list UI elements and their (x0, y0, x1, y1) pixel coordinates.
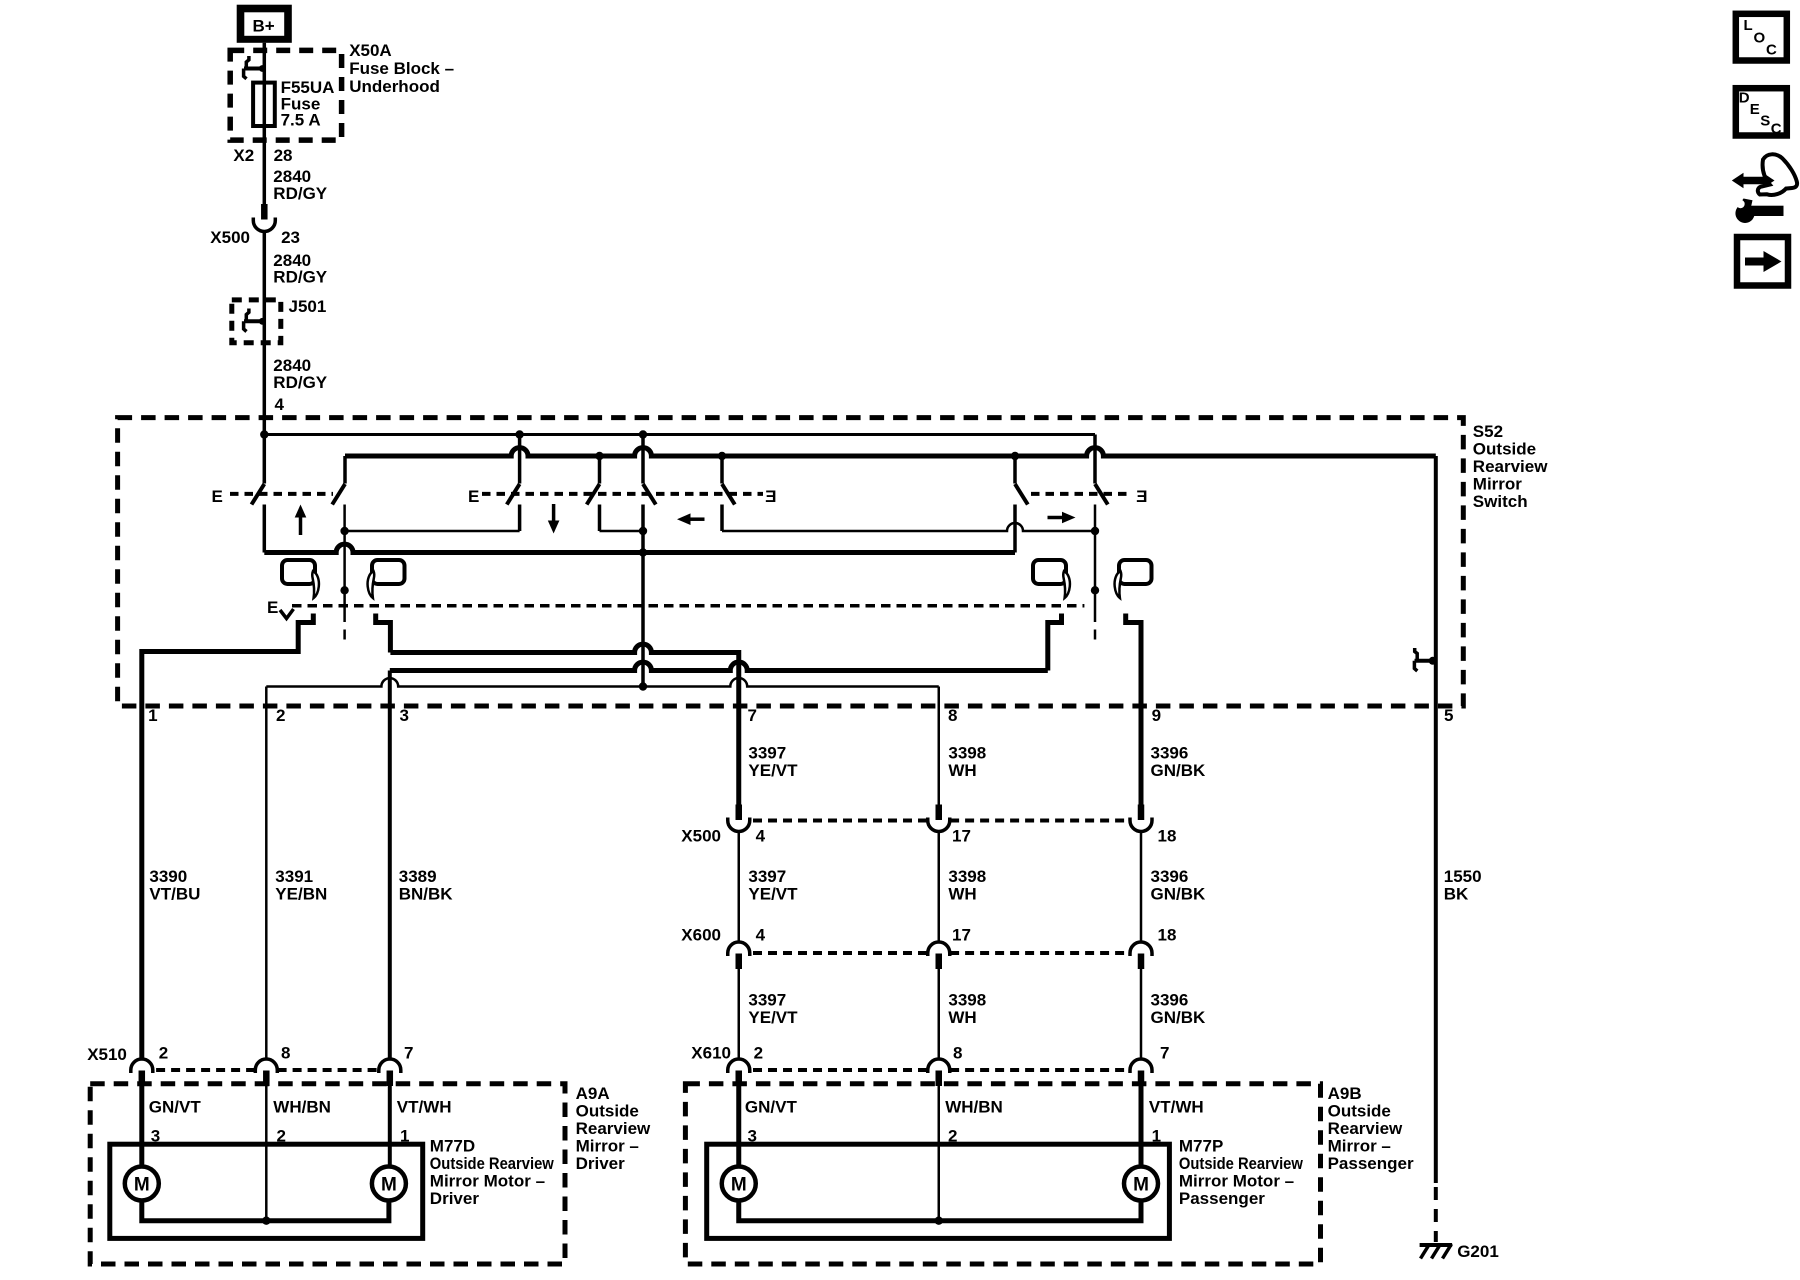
svg-text:WH: WH (948, 761, 976, 780)
junction dot B link (340, 527, 348, 535)
wire GN/VT into A9A (139, 1086, 144, 1168)
switch E upper wire (641, 435, 645, 484)
splice J501 clip symbol (244, 309, 266, 332)
svg-text:B+: B+ (253, 17, 275, 36)
svg-text:4: 4 (275, 395, 285, 414)
svg-text:Rearview: Rearview (1473, 457, 1548, 476)
mirror icon driver right (372, 560, 405, 584)
icon forward arrow box (1737, 237, 1788, 286)
svg-text:M: M (731, 1175, 747, 1196)
svg-text:1: 1 (148, 706, 157, 725)
fuse block X50A dashed outline (230, 50, 341, 140)
switch C lower wire (518, 505, 522, 532)
label X500 row (681, 827, 1176, 846)
label 3398 WH lower (948, 991, 986, 1028)
svg-text:Mirror: Mirror (1473, 475, 1523, 494)
svg-text:3397: 3397 (748, 744, 786, 763)
svg-text:BK: BK (1444, 885, 1469, 904)
svg-text:M: M (1133, 1175, 1149, 1196)
ground G201 (1420, 1244, 1453, 1259)
connector X600 pin 17 (928, 942, 950, 969)
wire 3397 between X500 and X600 (738, 831, 741, 943)
arrow up (295, 505, 307, 536)
svg-text:3396: 3396 (1151, 744, 1189, 763)
label X2 28 (233, 146, 292, 165)
svg-text:C: C (1766, 42, 1777, 59)
svg-text:5: 5 (1444, 706, 1453, 725)
svg-text:YE/BN: YE/BN (275, 885, 327, 904)
switch A lower wire (263, 505, 267, 553)
svg-text:YE/VT: YE/VT (748, 1008, 798, 1027)
svg-text:RD/GY: RD/GY (273, 268, 328, 287)
label 3398 WH upper (948, 744, 986, 781)
svg-text:28: 28 (274, 146, 293, 165)
svg-text:Outside Rearview: Outside Rearview (1179, 1154, 1304, 1173)
svg-text:17: 17 (952, 827, 971, 846)
arrow right (1048, 512, 1076, 524)
switch F upper wire (720, 456, 724, 484)
switch H blade (1095, 484, 1108, 505)
svg-text:3391: 3391 (275, 867, 313, 886)
label 3398 WH middle (948, 867, 986, 904)
junction dot H link (1091, 527, 1099, 535)
switch D blade (587, 484, 600, 505)
switch E blade (643, 484, 656, 505)
switch G lower wire (1013, 505, 1017, 553)
wire 3396 between X500 and X600 (1140, 831, 1143, 943)
wire pin 2 to pin 8 with hops (266, 678, 938, 686)
junction dot driver mirror common (340, 586, 348, 594)
selector actuator dashed line (292, 604, 1084, 608)
wire bus upper (node 4 feed) (264, 433, 1095, 436)
label 3396 GN/BK upper (1151, 744, 1207, 781)
switch H upper wire (1093, 435, 1097, 484)
motor M77P right (1124, 1167, 1158, 1201)
switch B upper wire (343, 456, 347, 484)
junction dot E on lower bus (639, 548, 647, 556)
svg-text:J501: J501 (289, 297, 327, 316)
mirror icon passenger left flag (1063, 571, 1070, 598)
icon DESC box (1736, 88, 1787, 137)
mirror A9B dashed outline (685, 1084, 1320, 1264)
svg-text:VT/BU: VT/BU (149, 885, 200, 904)
motor M77D left (125, 1167, 159, 1201)
svg-text:WH/BN: WH/BN (273, 1098, 331, 1117)
svg-text:3396: 3396 (1151, 991, 1189, 1010)
actuator link group 3 (1031, 492, 1131, 496)
label 3389 BN/BK (399, 867, 454, 904)
svg-text:Rearview: Rearview (1328, 1119, 1403, 1138)
svg-text:GN/VT: GN/VT (745, 1098, 798, 1117)
svg-text:Outside Rearview: Outside Rearview (430, 1154, 555, 1173)
svg-text:Outside: Outside (1473, 440, 1536, 459)
label X50A Fuse Block Underhood (349, 41, 454, 96)
label F55UA Fuse 7.5A (281, 78, 335, 130)
svg-text:GN/BK: GN/BK (1151, 1008, 1207, 1027)
motor M77D right (372, 1167, 406, 1201)
wire 3396 between X600 and X610 (1140, 969, 1143, 1060)
svg-text:7.5 A: 7.5 A (281, 111, 321, 130)
junction dot C top (515, 430, 523, 438)
wire VT/WH into A9B (1139, 1086, 1144, 1168)
svg-text:Outside: Outside (1328, 1102, 1391, 1121)
label S52 Outside Rearview Mirror Switch (1473, 422, 1548, 511)
selector actuator Ev label (267, 598, 294, 619)
wire 2840 RD/GY from X500 to S52 pin 4 (263, 231, 267, 484)
svg-text:2: 2 (754, 1044, 763, 1063)
svg-text:E: E (468, 487, 479, 506)
mirror icon driver left flag (312, 571, 319, 598)
mirror icon passenger right flag (1115, 571, 1122, 598)
svg-text:X600: X600 (681, 926, 721, 945)
svg-text:3396: 3396 (1151, 867, 1189, 886)
switch H lower wire (selector common passenger) (1094, 505, 1097, 623)
wire label 2840 RD/GY (upper) (273, 167, 328, 203)
junction dot G top (1011, 452, 1019, 460)
svg-text:L: L (1744, 17, 1753, 34)
wire GN/VT into A9B (736, 1086, 741, 1168)
wire 3391 pin 2 down (265, 687, 268, 1060)
svg-text:YE/VT: YE/VT (748, 761, 798, 780)
svg-text:1550: 1550 (1444, 867, 1482, 886)
connector X610 pin 2 (728, 1059, 750, 1086)
switch C blade (507, 484, 520, 505)
connector X500 pin 4 (728, 805, 750, 832)
label 3396 GN/BK lower (1151, 991, 1207, 1028)
wire pin 3 to passenger contact with hops (390, 662, 1048, 670)
svg-text:X610: X610 (691, 1044, 731, 1063)
arrow left (677, 513, 705, 525)
svg-text:3389: 3389 (399, 867, 437, 886)
actuator link group 2 (482, 492, 763, 496)
label A9B Outside Rearview Mirror Passenger (1328, 1084, 1414, 1173)
svg-text:O: O (1754, 30, 1766, 47)
link wire F-H with hop over G (722, 523, 1095, 531)
label 3397 YE/VT lower (748, 991, 798, 1028)
wire WH/BN into A9B (938, 1086, 941, 1221)
svg-text:18: 18 (1158, 827, 1177, 846)
connector X600 pin 4 (728, 942, 750, 969)
wire bus lower with hop over B (264, 544, 1015, 552)
svg-text:3398: 3398 (948, 867, 986, 886)
junction dot D top (595, 452, 603, 460)
wire 2840 RD/GY from B+ through fuse to connector (263, 43, 267, 204)
svg-text:Mirror –: Mirror – (576, 1137, 639, 1156)
wire label 2840 RD/GY (middle) (273, 251, 328, 287)
junction dot F top (718, 452, 726, 460)
svg-text:2: 2 (159, 1044, 168, 1063)
svg-text:GN/VT: GN/VT (149, 1098, 202, 1117)
svg-text:E: E (1136, 487, 1147, 506)
svg-text:D: D (1739, 90, 1750, 107)
wire VT/WH into A9A (388, 1086, 392, 1168)
svg-text:X500: X500 (681, 827, 721, 846)
link wire B-C (345, 530, 520, 533)
svg-text:8: 8 (948, 706, 957, 725)
connector row X600 dashed line (753, 951, 1130, 955)
connector X510 pin 2 (131, 1059, 153, 1086)
svg-text:RD/GY: RD/GY (273, 373, 328, 392)
svg-text:A9A: A9A (576, 1084, 610, 1103)
connector X500 pin 18 (1130, 805, 1152, 832)
label X600 row (681, 926, 1176, 945)
link wire D-E (600, 530, 644, 533)
switch S52 dashed outline (118, 418, 1464, 706)
svg-text:S: S (1760, 113, 1770, 130)
svg-text:M: M (381, 1175, 397, 1196)
svg-text:E: E (765, 487, 776, 506)
connector X510 pin 7 (379, 1059, 401, 1086)
label 3391 YE/BN (275, 867, 327, 904)
connector row X500 dashed line (753, 819, 1130, 823)
selector driver left contact to pin 1 (142, 614, 313, 1060)
svg-text:Rearview: Rearview (576, 1119, 651, 1138)
switch G upper wire (1013, 456, 1017, 484)
svg-text:17: 17 (952, 926, 971, 945)
wire 1550 BK pin 5 down (1434, 456, 1438, 1183)
svg-text:Switch: Switch (1473, 492, 1528, 511)
svg-text:M: M (134, 1175, 150, 1196)
switch A blade (252, 484, 265, 505)
mirror icon passenger left (1033, 560, 1066, 584)
label 3397 YE/VT upper (748, 744, 798, 781)
junction dot M77D link (262, 1217, 270, 1225)
svg-text:Underhood: Underhood (349, 77, 440, 96)
label A9A Outside Rearview Mirror Driver (576, 1084, 651, 1173)
wire 3397 between X600 and X610 (738, 969, 741, 1060)
selector driver right contact (376, 614, 391, 653)
switch B blade (332, 484, 345, 505)
motor link wire M77P (739, 1200, 1141, 1221)
svg-text:GN/BK: GN/BK (1151, 885, 1207, 904)
mirror icon driver left (282, 560, 315, 584)
wire WH/BN into A9A (265, 1086, 268, 1221)
fuse F55UA (253, 83, 275, 126)
svg-text:WH: WH (948, 1008, 976, 1027)
svg-text:VT/WH: VT/WH (397, 1098, 452, 1117)
svg-text:A9B: A9B (1328, 1084, 1362, 1103)
wire 3398 pin 8 down (938, 687, 941, 805)
label X610 row (691, 1044, 1169, 1063)
svg-text:4: 4 (756, 827, 766, 846)
label 1550 BK (1444, 867, 1482, 904)
switch G blade (1015, 484, 1028, 505)
switch H blade tip dash (1094, 630, 1097, 640)
label 3390 VT/BU (149, 867, 200, 904)
svg-text:VT/WH: VT/WH (1149, 1098, 1204, 1117)
label 3397 YE/VT middle (748, 867, 798, 904)
svg-text:G201: G201 (1457, 1242, 1499, 1261)
svg-text:Passenger: Passenger (1179, 1189, 1265, 1208)
junction dot M77P link (935, 1217, 943, 1225)
splice J501 dashed outline (232, 300, 281, 343)
selector passenger left contact (1048, 614, 1062, 671)
label M77D Outside Rearview Mirror Motor Driver (430, 1137, 555, 1209)
svg-text:3390: 3390 (149, 867, 187, 886)
svg-text:7: 7 (748, 706, 757, 725)
icon schematic navigation (1732, 154, 1797, 223)
mirror A9A dashed outline (90, 1084, 565, 1264)
svg-text:8: 8 (281, 1044, 290, 1063)
svg-text:X2: X2 (233, 146, 254, 165)
wire contact to pin 7 with hop over E (390, 644, 738, 804)
switch F blade (722, 484, 735, 505)
icon LOC box (1736, 14, 1787, 61)
fuse block clip symbol (244, 56, 266, 79)
svg-text:3397: 3397 (748, 991, 786, 1010)
junction dot entry (260, 430, 268, 438)
junction dot E link (639, 527, 647, 535)
svg-text:3398: 3398 (948, 991, 986, 1010)
svg-text:23: 23 (281, 228, 300, 247)
motor M77D outline (110, 1144, 423, 1238)
S52 case clip symbol (1414, 648, 1436, 671)
svg-text:Driver: Driver (430, 1189, 480, 1208)
svg-text:Passenger: Passenger (1328, 1154, 1414, 1173)
svg-text:Mirror Motor –: Mirror Motor – (1179, 1172, 1294, 1191)
wire 3398 between X500 and X600 (938, 831, 941, 943)
switch B lower wire (selector common driver) (343, 505, 346, 623)
junction dot passenger mirror common (1091, 586, 1099, 594)
wire 1550 BK dashed section (1434, 1187, 1438, 1242)
svg-text:Outside: Outside (576, 1102, 639, 1121)
svg-text:C: C (1771, 121, 1782, 138)
svg-text:9: 9 (1152, 706, 1161, 725)
svg-text:3398: 3398 (948, 744, 986, 763)
wire bus return (to pin 5) with hops (345, 448, 1436, 456)
svg-text:Mirror Motor –: Mirror Motor – (430, 1172, 545, 1191)
svg-text:WH: WH (948, 885, 976, 904)
mirror icon driver right flag (368, 571, 375, 598)
switch A upper contact (263, 480, 267, 484)
svg-text:E: E (1750, 101, 1760, 118)
svg-text:3397: 3397 (748, 867, 786, 886)
switch D upper wire (598, 456, 602, 484)
svg-text:X510: X510 (87, 1045, 127, 1064)
svg-text:YE/VT: YE/VT (748, 885, 798, 904)
svg-text:GN/BK: GN/BK (1151, 761, 1207, 780)
connector X500 pin 17 (928, 805, 950, 832)
connector X510 pin 8 (255, 1059, 277, 1086)
mirror icon passenger right (1119, 560, 1152, 584)
battery feed B+ terminal (237, 5, 292, 43)
motor M77P outline (707, 1144, 1170, 1238)
svg-text:WH/BN: WH/BN (945, 1098, 1003, 1117)
svg-text:M77P: M77P (1179, 1137, 1223, 1156)
label M77P Outside Rearview Mirror Motor Passenger (1179, 1137, 1304, 1209)
svg-text:X50A: X50A (349, 41, 392, 60)
motor M77P left (722, 1167, 756, 1201)
svg-text:Mirror –: Mirror – (1328, 1137, 1391, 1156)
actuator link group 1 (230, 492, 333, 496)
svg-text:M77D: M77D (430, 1137, 475, 1156)
wire 3398 between X600 and X610 (938, 969, 941, 1060)
junction dot E top (639, 430, 647, 438)
switch E lower wire (common feed) (641, 505, 645, 687)
label X500 23 (210, 228, 300, 247)
svg-text:7: 7 (1160, 1044, 1169, 1063)
arrow down (548, 504, 560, 534)
svg-text:Driver: Driver (576, 1154, 626, 1173)
connector row X510 dashed line (156, 1068, 378, 1072)
switch B blade tip dash (343, 630, 346, 640)
junction dot E common feed (639, 682, 647, 690)
connector row X610 dashed line (753, 1068, 1130, 1072)
svg-text:8: 8 (953, 1044, 962, 1063)
switch C upper wire (518, 435, 522, 484)
switch F lower wire (720, 505, 724, 532)
motor link wire M77D (142, 1200, 389, 1221)
connector X600 pin 18 (1130, 942, 1152, 969)
svg-text:RD/GY: RD/GY (273, 184, 328, 203)
svg-text:E: E (267, 598, 278, 617)
switch D lower wire (598, 505, 602, 532)
svg-text:BN/BK: BN/BK (399, 885, 454, 904)
svg-text:X500: X500 (210, 228, 250, 247)
svg-text:E: E (212, 487, 223, 506)
label X510 row (87, 1044, 413, 1065)
connector X610 pin 7 (1130, 1059, 1152, 1086)
svg-text:4: 4 (756, 926, 766, 945)
svg-text:7: 7 (404, 1044, 413, 1063)
connector X610 pin 8 (928, 1059, 950, 1086)
svg-text:Fuse Block –: Fuse Block – (349, 59, 454, 78)
selector passenger right contact to pin 9 (1126, 614, 1141, 805)
svg-text:S52: S52 (1473, 422, 1503, 441)
wire label 2840 RD/GY (lower) (273, 356, 328, 392)
svg-text:18: 18 (1158, 926, 1177, 945)
label 3396 GN/BK middle (1151, 867, 1207, 904)
wire 3389 pin 3 down (388, 671, 392, 1060)
inline connector X500 pin 23 (253, 204, 275, 232)
svg-text:2: 2 (276, 706, 285, 725)
svg-text:3: 3 (400, 706, 409, 725)
